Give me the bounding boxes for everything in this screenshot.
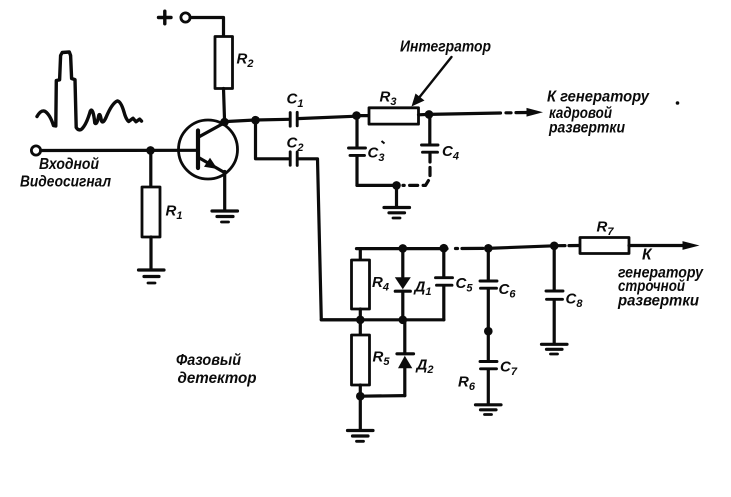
- resistor R7: [580, 238, 629, 254]
- wire: diode D1 top lead: [401, 248, 404, 276]
- capacitor C2: [290, 152, 297, 166]
- wire: R3 to right node: [419, 113, 430, 117]
- svg-text:C2: C2: [287, 135, 304, 155]
- wire: integrator bottom rail: [357, 184, 397, 187]
- wire: C5 top lead: [442, 248, 445, 276]
- wire: input terminal to transistor base: [41, 149, 197, 152]
- svg-text:R2: R2: [237, 51, 254, 71]
- node: R5/D2 ground junction: [356, 392, 365, 401]
- svg-text:Д2: Д2: [415, 357, 434, 377]
- svg-text:R3: R3: [380, 89, 397, 109]
- wire: power terminal to R2 top: [190, 18, 223, 37]
- resistor R5: [352, 335, 370, 385]
- wire: collector node to C1: [225, 119, 289, 121]
- capacitor C3: [349, 148, 366, 155]
- wire: R5 bottom lead: [359, 385, 362, 396]
- node: collector junction: [220, 118, 229, 127]
- svg-text:R1: R1: [166, 203, 183, 223]
- svg-text:Видеосигнал: Видеосигнал: [20, 174, 111, 191]
- resistor R4: [352, 260, 370, 309]
- node: C6 top: [484, 244, 493, 253]
- wire: top rail C6 to C8: [487, 246, 554, 249]
- ground (phase detector): [348, 431, 374, 442]
- ground (C8): [542, 344, 568, 354]
- wire: R1 bottom to ground: [149, 237, 152, 269]
- wire: dashes before R7: [558, 244, 579, 247]
- wire: ground stem phase detector: [359, 396, 362, 429]
- wire: emitter to ground: [223, 172, 226, 210]
- svg-text:C5: C5: [456, 275, 474, 295]
- wire: C8 top lead: [553, 246, 556, 290]
- svg-text:R6: R6: [458, 374, 476, 394]
- wire: integrator output: [429, 113, 501, 114]
- node: R4/R5 junction: [356, 316, 365, 325]
- wire: node to R1 top: [149, 150, 152, 187]
- svg-text:C7: C7: [500, 359, 518, 379]
- wire: node to R3: [357, 114, 370, 117]
- svg-text:Входной: Входной: [39, 156, 99, 173]
- wire: dash-dot on top rail: [456, 247, 484, 250]
- diode D2: [397, 354, 414, 368]
- wire: diode D2 bottom lead: [403, 368, 406, 395]
- wire: diode D2 top lead: [403, 320, 406, 354]
- wire: C3 bottom lead: [355, 157, 358, 186]
- ground (R1): [139, 270, 165, 283]
- wire: C5 bottom lead: [442, 287, 445, 320]
- wire: R4 top lead: [359, 249, 362, 260]
- node: C6/C7 junction: [484, 327, 493, 336]
- wire: C8 bottom lead: [553, 301, 556, 343]
- wire: C4 bottom dashed lead: [403, 154, 430, 185]
- stray dot mark: [676, 101, 680, 105]
- svg-text:C8: C8: [566, 291, 584, 311]
- svg-text:R4: R4: [372, 274, 389, 294]
- wire: C6 to C7: [487, 290, 490, 332]
- node: input / R1 junction: [146, 146, 155, 155]
- ground (C7): [476, 405, 502, 415]
- wire: ground stem: [395, 185, 398, 206]
- svg-text:R7: R7: [597, 219, 615, 239]
- wire: C3 top lead: [355, 116, 358, 147]
- svg-text:К: К: [642, 247, 653, 264]
- transistor (NPN): [179, 120, 238, 179]
- svg-text:детектор: детектор: [178, 370, 257, 387]
- label C3 tick mark: [382, 141, 385, 144]
- wire: C2 to phase detector: [298, 159, 356, 320]
- resistor R3: [369, 108, 419, 124]
- node: C1/C2 branch junction: [251, 116, 260, 125]
- wire: C7 top lead: [487, 331, 490, 360]
- resistor R1: [142, 187, 160, 237]
- resistor R2: [215, 37, 233, 89]
- wire: phase detector bottom rail: [360, 394, 405, 398]
- svg-text:Интегратор: Интегратор: [400, 39, 491, 56]
- wire: C2 branch from junction: [256, 120, 289, 159]
- input terminal circle: [31, 146, 40, 155]
- wire: diode D1 bottom lead: [401, 291, 404, 320]
- diode D1: [395, 277, 411, 291]
- power terminal circle: [181, 13, 190, 22]
- wire: R2 bottom to collector node: [224, 89, 225, 120]
- capacitor C8: [546, 291, 563, 299]
- plus power terminal symbol: [159, 11, 172, 24]
- capacitor C1: [290, 112, 297, 126]
- svg-text:К генератору: К генератору: [547, 89, 650, 106]
- svg-text:C1: C1: [287, 91, 304, 111]
- wire: phase detector mid rail: [321, 318, 444, 321]
- node: R4 top: [399, 244, 408, 253]
- wire: phase detector top rail: [357, 247, 448, 250]
- svg-text:Д1: Д1: [413, 279, 432, 299]
- svg-text:развертки: развертки: [617, 293, 699, 310]
- ground (emitter): [212, 211, 238, 222]
- svg-text:C3: C3: [368, 145, 385, 165]
- capacitor C7: [480, 362, 497, 369]
- wire: dash-dot segment to frame-sweep arrow: [506, 111, 527, 115]
- arrowhead: to frame sweep generator: [527, 108, 544, 117]
- node: C5 top: [440, 244, 449, 253]
- wire: C7 bottom lead: [487, 370, 490, 403]
- node: integrator ground junction: [392, 181, 401, 190]
- wire: R7 to line-sweep arrow: [629, 244, 684, 247]
- svg-text:C4: C4: [442, 143, 459, 163]
- svg-text:R5: R5: [373, 349, 391, 369]
- node: C8 top: [550, 242, 559, 251]
- input video waveform: [37, 52, 142, 130]
- arrowhead: integrator pointer: [412, 94, 425, 107]
- svg-text:C6: C6: [499, 281, 517, 301]
- ground (integrator): [384, 208, 410, 219]
- capacitor C4: [422, 145, 439, 152]
- wire: C1 to integrator node: [298, 116, 357, 118]
- svg-text:развертки: развертки: [548, 120, 625, 137]
- capacitor C5: [436, 278, 453, 286]
- svg-text:Фазовый: Фазовый: [176, 352, 241, 369]
- capacitor C6: [480, 281, 497, 288]
- wire: R4 bottom lead: [359, 309, 362, 320]
- wire: C6 top lead: [487, 248, 490, 279]
- annotation arrow: integrator pointer: [416, 57, 452, 102]
- node: D1/D2 junction: [399, 316, 408, 325]
- wire: R5 top lead: [359, 320, 362, 335]
- node: R3 left / C3 junction: [352, 111, 361, 120]
- wire: C4 top lead: [428, 114, 431, 143]
- node: R3 right / C4 junction: [425, 110, 434, 119]
- arrowhead: to line sweep generator: [683, 241, 700, 250]
